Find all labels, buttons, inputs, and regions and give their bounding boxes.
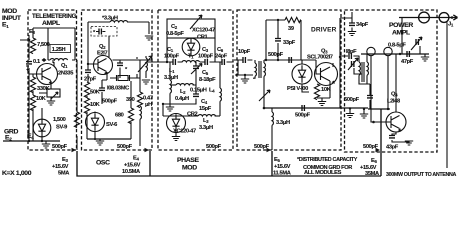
- svg-text:AMPL: AMPL: [42, 20, 60, 27]
- svg-text:10K: 10K: [90, 102, 101, 108]
- svg-text:5MA: 5MA: [58, 171, 69, 177]
- svg-text:OSC: OSC: [96, 160, 110, 167]
- svg-text:C6: C6: [217, 47, 224, 53]
- svg-text:27pF: 27pF: [84, 77, 97, 83]
- svg-text:XC120-47: XC120-47: [192, 28, 215, 34]
- svg-text:390: 390: [126, 97, 135, 103]
- svg-text:POWER: POWER: [389, 22, 413, 29]
- svg-text:10.5MA: 10.5MA: [122, 169, 140, 175]
- svg-text:500pF: 500pF: [363, 144, 379, 150]
- svg-text:3.3μH: 3.3μH: [199, 125, 213, 131]
- svg-text:PSI V-I00: PSI V-I00: [287, 86, 308, 92]
- svg-text:0.15μH: 0.15μH: [190, 88, 207, 94]
- svg-text:L2I48: L2I48: [387, 99, 400, 105]
- svg-text:C3: C3: [202, 47, 209, 53]
- svg-text:0.4μH: 0.4μH: [175, 96, 189, 102]
- svg-text:E4: E4: [133, 156, 139, 162]
- svg-text:47pF: 47pF: [401, 59, 414, 65]
- svg-text:11.5MA: 11.5MA: [273, 171, 291, 177]
- svg-text:L2: L2: [180, 89, 186, 95]
- svg-text:Q4: Q4: [391, 92, 398, 98]
- svg-text:0.1: 0.1: [33, 59, 40, 65]
- svg-text:C5: C5: [202, 70, 209, 76]
- svg-text:μH: μH: [145, 102, 152, 108]
- svg-text:500pF: 500pF: [344, 97, 360, 103]
- svg-text:SV-9: SV-9: [56, 125, 67, 131]
- svg-text:Q1: Q1: [61, 63, 68, 69]
- svg-text:0.47: 0.47: [143, 96, 153, 102]
- svg-text:XC120-47: XC120-47: [173, 129, 196, 135]
- svg-text:Q2: Q2: [99, 44, 106, 50]
- svg-text:K=X 1,000: K=X 1,000: [2, 170, 32, 177]
- svg-text:+15.6V: +15.6V: [52, 164, 69, 170]
- svg-text:MOD: MOD: [182, 165, 197, 172]
- svg-text:100pF: 100pF: [198, 54, 214, 60]
- svg-text:E5: E5: [274, 157, 280, 163]
- svg-text:TELEMETERING: TELEMETERING: [32, 13, 76, 20]
- svg-text:10K: 10K: [36, 96, 47, 102]
- svg-text:C1: C1: [167, 47, 174, 53]
- svg-text:2N335: 2N335: [58, 71, 73, 77]
- svg-text:35MA: 35MA: [365, 171, 379, 177]
- svg-text:PHASE: PHASE: [177, 157, 199, 164]
- svg-text:E6: E6: [371, 158, 377, 164]
- svg-text:300MW OUTPUT TO ANTENNA: 300MW OUTPUT TO ANTENNA: [386, 172, 456, 178]
- svg-text:500pF: 500pF: [254, 144, 270, 150]
- svg-text:15pF: 15pF: [199, 106, 212, 112]
- svg-text:DRIVER: DRIVER: [311, 27, 337, 34]
- svg-text:CR2: CR2: [187, 112, 198, 118]
- svg-text:1.25H: 1.25H: [52, 47, 66, 53]
- svg-text:3.3μH: 3.3μH: [276, 120, 290, 126]
- svg-text:680: 680: [115, 113, 124, 119]
- svg-text:100pF: 100pF: [164, 54, 180, 60]
- svg-text:L3: L3: [203, 118, 209, 124]
- svg-text:0.8-5pF: 0.8-5pF: [388, 43, 406, 49]
- svg-text:SCL7002I7: SCL7002I7: [307, 55, 333, 61]
- svg-text:500pF: 500pF: [102, 99, 118, 105]
- svg-text:500pF: 500pF: [52, 144, 68, 150]
- svg-text:33pF: 33pF: [283, 40, 296, 46]
- svg-text:+15.6V: +15.6V: [124, 163, 141, 169]
- svg-text:500pF: 500pF: [295, 113, 311, 119]
- svg-text:AMPL: AMPL: [392, 30, 410, 37]
- svg-text:SV-6: SV-6: [106, 122, 117, 128]
- svg-text:24pF: 24pF: [215, 54, 228, 60]
- svg-text:500pF: 500pF: [268, 52, 284, 58]
- svg-text:0.8-5pF: 0.8-5pF: [166, 31, 184, 37]
- svg-text:ALL MODULES: ALL MODULES: [304, 170, 342, 176]
- svg-text:I08.03MC: I08.03MC: [107, 86, 129, 92]
- svg-text:+15.6V: +15.6V: [274, 164, 291, 170]
- svg-text:T1: T1: [188, 54, 194, 60]
- svg-text:C4: C4: [201, 99, 208, 105]
- svg-text:34pF: 34pF: [356, 22, 369, 28]
- svg-text:10K: 10K: [321, 87, 332, 93]
- svg-text:1,500: 1,500: [53, 117, 66, 123]
- svg-text:500pF: 500pF: [117, 144, 133, 150]
- svg-text:E3: E3: [62, 157, 68, 163]
- svg-text:*DISTRIBUTED CAPACITY: *DISTRIBUTED CAPACITY: [297, 157, 358, 163]
- svg-text:10pF: 10pF: [238, 49, 251, 55]
- svg-text:L4: L4: [209, 88, 215, 94]
- svg-text:E3: E3: [29, 29, 35, 35]
- svg-text:500pF: 500pF: [206, 144, 222, 150]
- svg-text:8-18pF: 8-18pF: [199, 77, 216, 83]
- svg-text:CR1: CR1: [197, 35, 208, 41]
- svg-text:43pF: 43pF: [386, 145, 399, 151]
- svg-text:39: 39: [288, 26, 294, 32]
- svg-text:C2: C2: [171, 24, 178, 30]
- svg-text:*3.3μH: *3.3μH: [102, 16, 118, 22]
